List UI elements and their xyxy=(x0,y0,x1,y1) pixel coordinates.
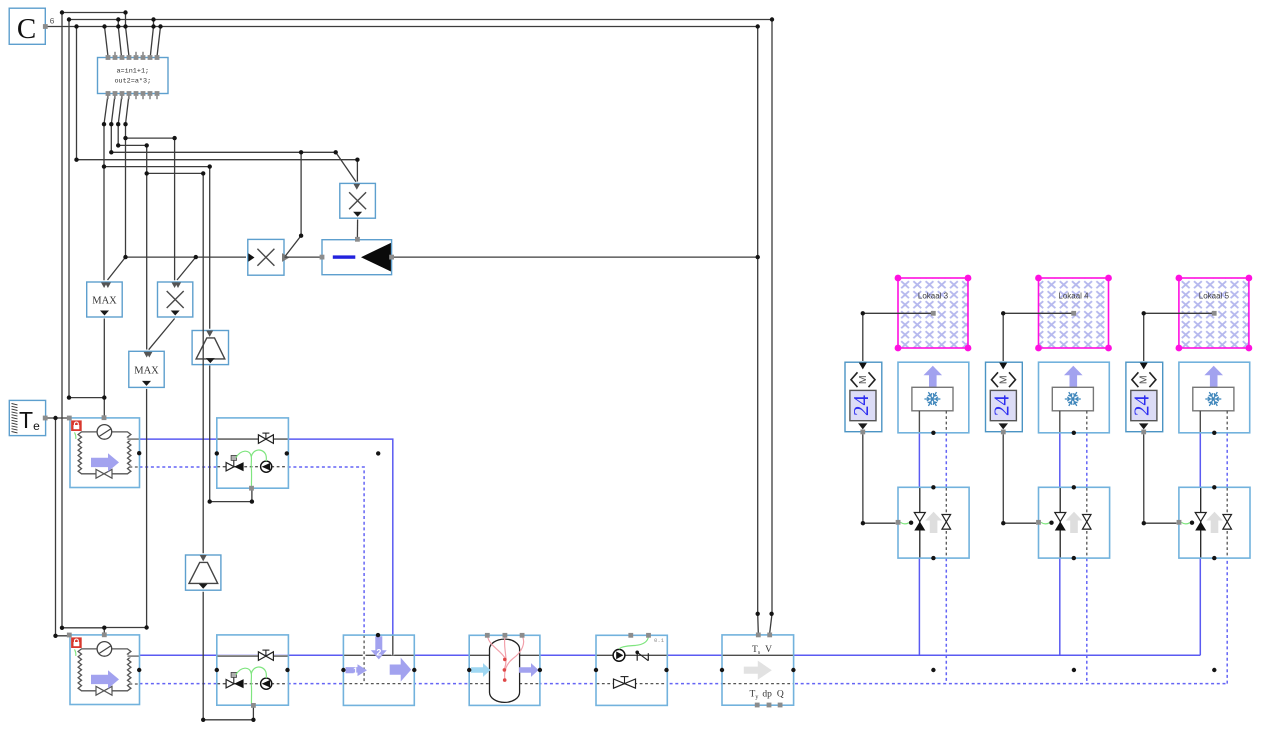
fan block TRAP1 xyxy=(192,331,228,365)
wire top row1 xyxy=(62,12,126,14)
wire Lokaal5 to M24 xyxy=(1144,313,1215,361)
product block MULT1 xyxy=(158,282,193,317)
svg-text:24: 24 xyxy=(1130,395,1154,417)
wire TRAP1 out to V1 xyxy=(210,366,252,502)
thermostat block M24 group2 xyxy=(986,362,1023,432)
divider block with display triangle xyxy=(322,240,392,275)
svg-text:M: M xyxy=(857,375,869,384)
wire supply lower main (HX2 to Lokaal circuits) xyxy=(140,654,1201,656)
wire MULT1 out to MAX2 xyxy=(149,319,175,350)
wire into MULT2 left xyxy=(126,256,247,258)
wire return upper dashed (HX1 to mixer) xyxy=(140,467,365,635)
block fills xyxy=(70,418,140,488)
wire supply riser group1 xyxy=(918,433,920,656)
constant block C xyxy=(9,8,45,45)
fan block TRAP2 xyxy=(186,555,221,590)
fancoil block group1 xyxy=(898,362,969,433)
wire slant into MULT1 b xyxy=(177,257,196,280)
wire MULT3 to divider xyxy=(356,220,358,238)
svg-text:M: M xyxy=(997,375,1009,384)
wire return riser group3 dashed xyxy=(1226,558,1228,684)
wire Te branch to HX2 corner xyxy=(56,418,68,636)
wire Lokaal4 to M24 xyxy=(1003,313,1074,361)
wire down into MULT2 right xyxy=(286,152,302,256)
svg-text:out2=a*3;: out2=a*3; xyxy=(114,77,151,85)
room block Lokaal 5 xyxy=(1176,275,1253,352)
thermostat block M24 group1 xyxy=(845,362,882,432)
svg-text:2: 2 xyxy=(376,648,381,658)
wire to code in8 xyxy=(157,27,161,57)
wire return riser group1 dashed xyxy=(945,433,947,684)
wire return riser group3 dashed upper part xyxy=(1226,433,1228,488)
wire stub row2-row3 b xyxy=(153,20,155,27)
wire code out2 long row xyxy=(111,95,335,153)
wire code out3 xyxy=(118,95,147,146)
svg-text:24: 24 xyxy=(989,395,1013,417)
wire MAX2 out to HX2 xyxy=(104,389,146,633)
svg-text:1: 1 xyxy=(353,667,358,676)
wire branch to MULT1 top xyxy=(126,138,175,280)
max block MAX1 xyxy=(87,282,123,317)
wire code out4 down xyxy=(126,95,130,258)
wire stub row2-row3 a xyxy=(117,20,119,27)
wire code out1 to MAX1 xyxy=(104,95,108,281)
wire long down to TRAP2 xyxy=(202,173,204,553)
wire C output row3 xyxy=(46,26,758,28)
wire supply riser group2 xyxy=(1059,433,1061,656)
room block Lokaal 4 xyxy=(1035,275,1112,352)
wire right column to sensor b xyxy=(770,20,772,634)
outside temperature block Te xyxy=(9,400,45,435)
wire Te to HX1 corner xyxy=(45,417,67,419)
svg-text:0.1: 0.1 xyxy=(654,637,665,644)
wire to code in7 xyxy=(150,27,153,57)
svg-text:Lokaal 4: Lokaal 4 xyxy=(1058,292,1089,301)
wire return lower main dashed xyxy=(140,683,1228,685)
thermostat block M24 group3 xyxy=(1126,362,1163,432)
wire supply riser group3 xyxy=(1199,433,1201,656)
wire M24 to valve group3 xyxy=(1144,434,1177,523)
svg-text:TydpQ: TydpQ xyxy=(750,689,784,700)
wire stub row1-row3 xyxy=(125,13,127,27)
wire left column C long row xyxy=(77,27,358,160)
code block a=in1+1 xyxy=(98,58,169,94)
svg-text:a=in1+1;: a=in1+1; xyxy=(116,67,149,75)
wire into MULT3 top xyxy=(356,160,358,182)
wire divider out to MULT2 xyxy=(285,256,323,258)
wire right column to sensor a xyxy=(757,27,760,634)
wire slant into MAX1 b xyxy=(108,257,126,280)
svg-text:24: 24 xyxy=(849,395,873,417)
svg-text:M: M xyxy=(1138,375,1150,384)
wire Lokaal3 to M24 xyxy=(863,313,934,361)
fancoil block group2 xyxy=(1039,362,1110,433)
svg-text:Lokaal 5: Lokaal 5 xyxy=(1199,292,1230,301)
fancoil block group3 xyxy=(1179,362,1250,433)
wire M24 to valve group2 xyxy=(1003,434,1036,523)
wire return riser group2 dashed xyxy=(1086,433,1088,684)
wire left column B to HX1 xyxy=(69,20,104,398)
valve block group3 xyxy=(1179,487,1250,558)
wire to code in4 xyxy=(126,27,130,57)
valve-pump block V1 xyxy=(217,418,289,488)
wire left column A to HX2 xyxy=(62,13,104,628)
valve-pump block V2 xyxy=(217,635,289,705)
sensor block SEN (T,V / T,dp,Q) xyxy=(722,635,794,705)
product block MULT3 xyxy=(340,183,376,218)
mixing valve block MIX xyxy=(343,635,414,705)
pump block PMP xyxy=(596,635,667,705)
valve block group1 xyxy=(898,487,969,558)
wire top row2 xyxy=(69,19,772,21)
max block MAX2 xyxy=(129,351,164,387)
svg-text:Lokaal 3: Lokaal 3 xyxy=(918,292,949,301)
wire M24 to valve group1 xyxy=(863,434,896,523)
wire MAX1 out to HX1 xyxy=(103,319,105,417)
svg-text:6: 6 xyxy=(50,17,55,27)
heat exchanger block HX1 xyxy=(70,418,140,488)
wire slant into MULT3 xyxy=(336,152,356,182)
svg-text:C: C xyxy=(17,13,36,45)
wire hot water supply upper (HX1 to mixer) xyxy=(140,439,393,635)
svg-text:MAX: MAX xyxy=(134,365,159,376)
wire down to MAX2 xyxy=(146,145,148,349)
valve block group2 xyxy=(1039,487,1110,558)
product block MULT2 xyxy=(248,239,290,275)
wire to code in1 xyxy=(105,27,109,57)
wire branch to TRAP1 xyxy=(104,167,210,329)
heat exchanger block HX2 xyxy=(70,635,140,705)
wire TRAP2 out to V2 xyxy=(203,592,253,720)
room block Lokaal 3 xyxy=(895,275,972,352)
wire to code in3 xyxy=(118,27,121,57)
wire branch to TRAP2 column xyxy=(147,172,204,174)
wire long row into divider right xyxy=(392,256,758,258)
arrowheads xyxy=(101,184,1148,562)
svg-text:MAX: MAX xyxy=(92,296,117,307)
buffer tank block TANK xyxy=(469,635,540,705)
